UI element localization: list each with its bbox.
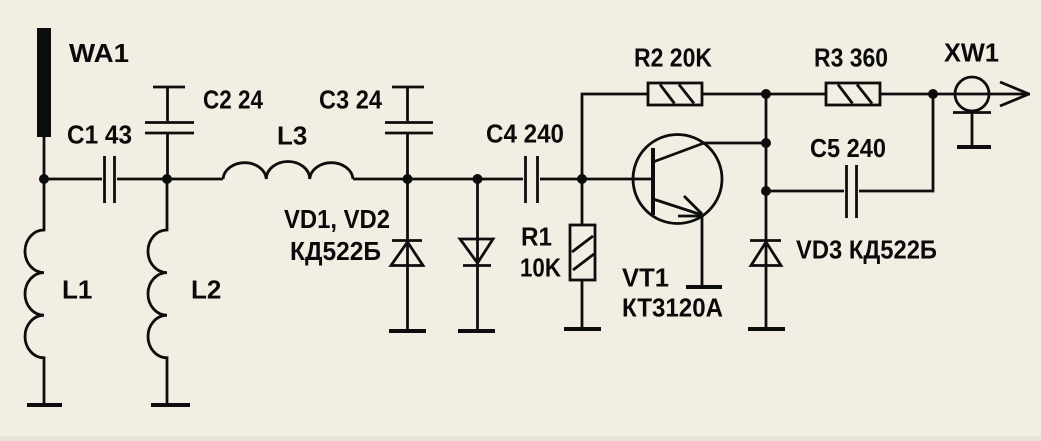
ground (R1) xyxy=(564,327,601,331)
svg-text:XW1: XW1 xyxy=(944,38,999,68)
ground (VD2) xyxy=(458,329,495,333)
svg-text:C3 24: C3 24 xyxy=(319,85,382,115)
capacitor C5 xyxy=(847,165,857,218)
connector XW1 xyxy=(933,77,1030,147)
wire C4 to node E and base xyxy=(540,178,651,181)
wire C5 to riser up to node I xyxy=(859,94,933,191)
ground (L1) xyxy=(27,403,62,407)
svg-text:C1 43: C1 43 xyxy=(67,120,132,150)
wire node D to C4 xyxy=(478,178,524,181)
capacitor C3 xyxy=(385,87,433,179)
antenna WA1 xyxy=(37,28,51,179)
svg-text:10K: 10K xyxy=(520,253,561,283)
ground (VT1 emitter) xyxy=(686,285,722,289)
capacitor C1 xyxy=(105,156,115,203)
ground (XW1) xyxy=(957,145,991,149)
diode VD2 xyxy=(460,179,493,331)
wire node H to C5 xyxy=(766,190,844,193)
node C junction xyxy=(403,174,413,184)
ground (VD3) xyxy=(748,327,785,331)
wire R3 to node I xyxy=(880,93,933,96)
diode VD1 xyxy=(391,179,423,331)
resistor R1 xyxy=(570,179,595,329)
node H junction (C5 tap) xyxy=(761,186,771,196)
transistor VT1 xyxy=(633,135,722,288)
diode VD3 xyxy=(750,191,781,329)
node G junction (collector) xyxy=(761,138,771,148)
svg-text:L3: L3 xyxy=(277,121,307,151)
wire node F to R3 xyxy=(766,93,826,96)
svg-text:VD3 КД522Б: VD3 КД522Б xyxy=(796,235,937,265)
capacitor C2 xyxy=(145,87,194,179)
node E junction xyxy=(577,174,587,184)
node F junction xyxy=(761,89,771,99)
svg-text:КД522Б: КД522Б xyxy=(290,236,381,266)
wire riser node E to R2 xyxy=(582,94,648,179)
wire R2 to node F xyxy=(702,93,766,96)
wire L3 to node C xyxy=(353,178,478,181)
node I junction xyxy=(928,89,938,99)
svg-text:КТ3120А: КТ3120А xyxy=(622,293,723,323)
ground (L2) xyxy=(151,403,190,407)
svg-text:R3 360: R3 360 xyxy=(814,43,888,73)
ground (VD1) xyxy=(389,329,426,333)
svg-text:WA1: WA1 xyxy=(69,38,129,68)
bottom edge strip xyxy=(0,436,1041,441)
wire riser F-G-H xyxy=(765,94,768,191)
svg-text:VT1: VT1 xyxy=(622,263,669,293)
svg-text:L1: L1 xyxy=(62,275,92,305)
node D junction xyxy=(473,174,483,184)
node A junction xyxy=(39,174,49,184)
inductor L2 xyxy=(148,179,167,405)
svg-text:C2 24: C2 24 xyxy=(203,85,263,115)
wire collector to riser xyxy=(704,142,766,145)
wire main A: node A to C1 xyxy=(44,178,102,181)
resistor R3 xyxy=(826,83,880,105)
svg-text:R1: R1 xyxy=(521,222,552,252)
resistor R2 xyxy=(648,83,702,105)
wire C1 to node B xyxy=(117,178,223,181)
capacitor C4 xyxy=(526,156,538,203)
inductor L1 xyxy=(25,179,44,405)
svg-text:L2: L2 xyxy=(191,275,221,305)
svg-text:C5 240: C5 240 xyxy=(810,133,886,163)
svg-text:C4 240: C4 240 xyxy=(486,119,564,149)
inductor L3 xyxy=(223,162,353,180)
svg-text:R2 20K: R2 20K xyxy=(634,43,712,73)
svg-text:VD1, VD2: VD1, VD2 xyxy=(284,204,390,234)
node B junction xyxy=(162,174,172,184)
